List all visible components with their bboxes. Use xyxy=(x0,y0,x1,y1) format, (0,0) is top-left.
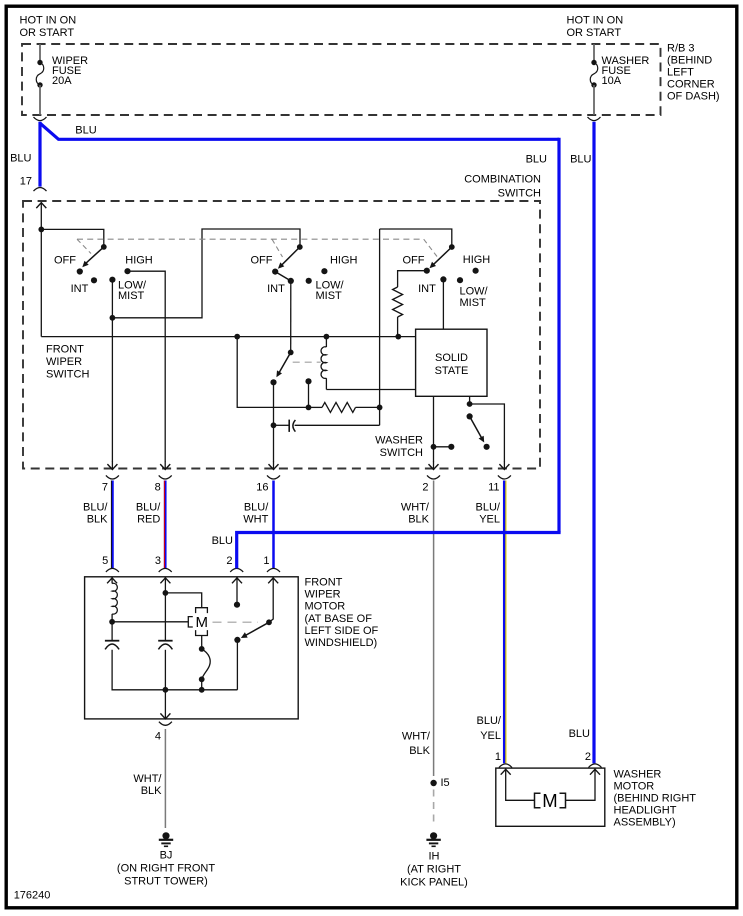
svg-text:2: 2 xyxy=(226,555,232,567)
svg-text:BLK: BLK xyxy=(409,745,430,757)
svg-text:LEFT SIDE OF: LEFT SIDE OF xyxy=(305,625,379,637)
svg-text:HOT IN ON: HOT IN ON xyxy=(567,15,624,27)
park switch arm xyxy=(241,622,269,638)
svg-text:OR START: OR START xyxy=(567,27,622,39)
label motor pin 5 xyxy=(102,555,108,567)
svg-text:BLU: BLU xyxy=(75,125,96,137)
wire WHT/BLK pin2 to I5 xyxy=(433,481,435,777)
wire B+ rail horizontal xyxy=(41,336,415,338)
wire BLU horizontal to motor2 xyxy=(237,531,559,568)
connector cup motor entry x165.2 xyxy=(159,568,172,572)
label WASHER MOTOR xyxy=(614,768,697,828)
svg-text:SWITCH: SWITCH xyxy=(498,187,541,199)
label HOT IN ON OR START (left) xyxy=(20,15,77,40)
svg-text:KICK PANEL): KICK PANEL) xyxy=(400,876,468,888)
svg-text:R/B 3: R/B 3 xyxy=(667,43,695,55)
label INT gang1 xyxy=(71,283,89,295)
washer fuse 10A xyxy=(590,44,598,115)
wire M bottom lead xyxy=(199,636,205,652)
svg-text:20A: 20A xyxy=(52,75,72,87)
node rail/relay-contact branch xyxy=(234,334,240,340)
wire pin3 down through capacitor xyxy=(164,593,166,641)
svg-text:MOTOR: MOTOR xyxy=(305,601,346,613)
label pin 2 xyxy=(422,482,428,494)
svg-text:BLU/: BLU/ xyxy=(477,715,502,727)
label motor pin 4 xyxy=(155,731,161,743)
svg-text:HIGH: HIGH xyxy=(330,254,358,266)
svg-text:5: 5 xyxy=(102,555,108,567)
washer motor box xyxy=(496,768,605,826)
motor park contact open xyxy=(234,602,240,608)
label LOW/MIST gang2 xyxy=(316,280,345,303)
wire gang3 feed top xyxy=(380,229,452,247)
label pin 11 xyxy=(488,482,499,494)
svg-text:BLK: BLK xyxy=(408,514,429,526)
svg-text:YEL: YEL xyxy=(480,730,501,742)
wire BLU/YEL pin11 to washer1 xyxy=(504,481,506,764)
combination switch dashed outline xyxy=(23,201,540,469)
label HIGH gang3 xyxy=(463,254,491,266)
resistor R gang3 INT xyxy=(393,287,403,337)
label WHT/BLK (lower) xyxy=(402,731,431,758)
svg-text:ASSEMBLY): ASSEMBLY) xyxy=(614,816,676,828)
node I5 xyxy=(430,777,449,789)
gang2 pivot xyxy=(297,244,303,250)
svg-text:M: M xyxy=(195,614,208,631)
connector cup motor entry x112.4 xyxy=(106,568,119,572)
label COMBINATION SWITCH xyxy=(464,174,541,200)
wire BLU branch diagonal+horizontal xyxy=(40,123,559,139)
svg-text:10A: 10A xyxy=(602,75,622,87)
svg-text:SWITCH: SWITCH xyxy=(46,369,89,381)
svg-text:(AT RIGHT: (AT RIGHT xyxy=(407,863,461,875)
park switch contact xyxy=(234,637,240,643)
wire pin5 down to capacitor xyxy=(111,622,113,641)
wire WHT/BLK motor pin4 to BJ xyxy=(164,729,166,828)
motor pin1 entry arrow xyxy=(268,578,278,623)
wire BLU wiper fuse vertical to pin 17 xyxy=(38,122,41,187)
resistor R (intermittent) xyxy=(309,402,380,412)
wire pin3 to M top xyxy=(165,593,201,608)
front wiper motor box xyxy=(85,577,299,719)
node brush curve bottom xyxy=(199,676,205,692)
label IH xyxy=(400,850,468,888)
mechanical linkage dashed xyxy=(77,239,437,257)
svg-text:WHT/: WHT/ xyxy=(402,731,431,743)
gang1 INT contact xyxy=(91,277,97,283)
gang3 OFF contact xyxy=(424,268,430,274)
gang2 OFF contact xyxy=(272,269,278,275)
node washer switch junction xyxy=(431,444,437,450)
comb switch exit arrow pin 11 xyxy=(498,461,511,479)
relay arm xyxy=(276,352,290,377)
wire rail branch down xyxy=(237,337,308,408)
wire gang2 OFF-INT link xyxy=(275,272,291,281)
gang2 HIGH contact xyxy=(321,268,327,274)
label LOW/MIST gang1 xyxy=(118,280,147,303)
motor brush curve xyxy=(202,649,211,679)
svg-text:BLU: BLU xyxy=(526,154,547,166)
svg-text:3: 3 xyxy=(155,555,161,567)
wire gang1 HIGH to pin 8 xyxy=(128,271,166,461)
capacitor C motor-1 xyxy=(105,641,119,650)
svg-text:I5: I5 xyxy=(441,777,450,789)
svg-text:BLU: BLU xyxy=(569,728,590,740)
label R/B 3 (BEHIND LEFT CORNER OF DASH) xyxy=(667,43,720,103)
wire gang3 feed vertical xyxy=(379,229,381,425)
wire dashed to IH ground xyxy=(433,790,435,825)
svg-text:BLK: BLK xyxy=(87,514,108,526)
label WASHER FUSE 10A xyxy=(602,55,650,87)
label FRONT WIPER MOTOR xyxy=(305,577,379,650)
svg-text:BLU: BLU xyxy=(570,154,591,166)
relay contact right xyxy=(305,378,311,407)
connector cup motor entry x236.7 xyxy=(230,568,243,572)
svg-text:STRUT TOWER): STRUT TOWER) xyxy=(124,876,208,888)
wire switch1 feed xyxy=(41,229,104,247)
gang3 pivot xyxy=(449,244,455,250)
motor M symbol xyxy=(188,608,208,636)
svg-text:MOTOR: MOTOR xyxy=(614,780,655,792)
svg-text:(AT BASE OF: (AT BASE OF xyxy=(305,613,373,625)
washer switch contact stub xyxy=(434,444,455,450)
node rail/INT-resistor xyxy=(395,334,401,340)
wire capacitor1 to rail xyxy=(112,650,237,690)
svg-text:STATE: STATE xyxy=(435,365,469,377)
gang3 arm xyxy=(430,247,452,268)
solid state unit U1 xyxy=(416,329,487,396)
label BLU/BLK xyxy=(83,502,108,526)
node motor pin5 junction xyxy=(109,614,115,625)
svg-text:LOW/: LOW/ xyxy=(460,286,489,298)
relay linkage dashed xyxy=(293,361,321,363)
node junction pin7/gang2 feed xyxy=(110,315,116,321)
front wiper switch gang1 pivot xyxy=(101,244,107,250)
svg-text:MIST: MIST xyxy=(118,290,145,302)
svg-text:YEL: YEL xyxy=(479,514,500,526)
ground BJ xyxy=(159,832,173,846)
svg-text:BLK: BLK xyxy=(141,785,162,797)
gang1 LOW/MIST contact xyxy=(109,277,115,283)
label BLU/RED xyxy=(136,502,161,526)
svg-text:HOT IN ON: HOT IN ON xyxy=(20,15,77,27)
svg-text:BLU/: BLU/ xyxy=(244,502,269,514)
label HOT IN ON OR START (right) xyxy=(567,15,624,40)
wire BLU/BLK pin7 to motor5 xyxy=(111,481,112,569)
label BLU (washer fuse lower) xyxy=(569,728,590,740)
label motor pin 1 xyxy=(263,555,269,567)
node motor pin3 junction xyxy=(163,590,169,596)
wire gang2 feed xyxy=(112,229,300,318)
node y407 stub junction xyxy=(306,405,312,411)
label BLU above horizontal xyxy=(75,125,96,137)
relay pivot xyxy=(288,350,294,356)
svg-text:WIPER: WIPER xyxy=(305,589,341,601)
connector below wiper fuse xyxy=(34,117,47,121)
label pin 8 xyxy=(155,482,161,494)
svg-text:WHT: WHT xyxy=(243,514,268,526)
svg-text:OFF: OFF xyxy=(251,254,273,266)
gang2 arm xyxy=(278,247,300,269)
washer motor M symbol xyxy=(535,790,566,811)
label pin 7 xyxy=(102,482,108,494)
label WIPER FUSE 20A xyxy=(52,55,88,87)
label motor pin 3 xyxy=(155,555,161,567)
gang3 HIGH contact xyxy=(473,268,479,274)
svg-text:WASHER: WASHER xyxy=(614,768,662,780)
connector below washer fuse xyxy=(588,117,601,121)
wire main feed entry + left vertical xyxy=(36,202,46,336)
label BLU near x559 xyxy=(526,154,547,166)
svg-text:BLU: BLU xyxy=(212,535,233,547)
wire gang2 INT to relay pivot xyxy=(290,281,292,353)
svg-text:WHT/: WHT/ xyxy=(133,773,162,785)
svg-text:16: 16 xyxy=(256,482,268,494)
label HIGH gang1 xyxy=(125,254,153,266)
washer motor pin1 arrow xyxy=(501,769,535,800)
svg-text:1: 1 xyxy=(495,751,501,763)
relay contact left xyxy=(270,379,276,385)
label OFF gang3 xyxy=(403,254,425,266)
wire relay contact to capacitor node xyxy=(273,382,275,425)
svg-text:INT: INT xyxy=(71,283,89,295)
svg-text:2: 2 xyxy=(422,482,428,494)
label motor pin 2 xyxy=(226,555,232,567)
motor pin5 entry arrow xyxy=(107,578,117,584)
wire park contact to rail xyxy=(236,640,238,690)
svg-text:RED: RED xyxy=(137,514,160,526)
label INT gang2 xyxy=(267,283,285,295)
motor dashed link M to park switch xyxy=(213,621,259,623)
svg-text:(ON RIGHT FRONT: (ON RIGHT FRONT xyxy=(117,863,215,875)
label BLU/YEL (lower) xyxy=(477,715,502,742)
park switch pivot xyxy=(266,619,272,625)
svg-text:WINDSHIELD): WINDSHIELD) xyxy=(305,637,378,649)
gang2 LOW/MIST contact xyxy=(306,278,312,284)
node rail/pin4 xyxy=(163,687,169,693)
comb switch exit arrow pin 16 xyxy=(267,461,280,479)
label BLU near motor pin2 xyxy=(212,535,233,547)
svg-text:OF DASH): OF DASH) xyxy=(667,91,720,103)
connector cup washer1 xyxy=(499,764,512,768)
svg-text:2: 2 xyxy=(585,751,591,763)
svg-text:7: 7 xyxy=(102,482,108,494)
svg-text:M: M xyxy=(542,790,557,811)
node resistor/gang3 feed xyxy=(377,405,383,411)
svg-text:SOLID: SOLID xyxy=(435,352,468,364)
node capacitor junction xyxy=(271,422,277,428)
label BLU near x594 xyxy=(570,154,591,166)
svg-text:BLU: BLU xyxy=(10,153,31,165)
svg-text:BLU/: BLU/ xyxy=(476,502,501,514)
wire BLU/WHT pin16 to motor1 xyxy=(272,481,275,569)
gang1 OFF contact xyxy=(77,268,83,274)
label washer pin 1 xyxy=(495,751,501,763)
svg-text:FRONT: FRONT xyxy=(46,344,84,356)
gang2 INT contact xyxy=(288,278,294,284)
relay coil xyxy=(321,337,326,390)
ground IH xyxy=(426,832,440,846)
svg-text:WASHER: WASHER xyxy=(375,435,423,447)
svg-text:4: 4 xyxy=(155,731,161,743)
capacitor C motor-2 xyxy=(158,641,172,650)
label OFF gang1 xyxy=(54,254,76,266)
svg-text:OFF: OFF xyxy=(403,254,425,266)
svg-text:MIST: MIST xyxy=(316,290,343,302)
label BJ xyxy=(117,850,215,888)
label BLU (left of wire) xyxy=(10,153,31,165)
gang3 LOW/MIST contact xyxy=(457,277,463,283)
svg-text:HIGH: HIGH xyxy=(125,254,153,266)
svg-text:MIST: MIST xyxy=(460,297,487,309)
comb switch exit arrow pin 8 xyxy=(159,461,172,479)
wire BLU/RED pin8 to motor3 xyxy=(163,481,167,569)
wire gang1 LOW to pin 7 xyxy=(111,280,113,462)
connector cup washer2 xyxy=(589,764,602,768)
wiper fuse 20A xyxy=(36,44,44,115)
svg-text:LEFT: LEFT xyxy=(667,67,694,79)
svg-text:HIGH: HIGH xyxy=(463,254,491,266)
gang1 HIGH contact xyxy=(124,268,130,274)
svg-text:BLU/: BLU/ xyxy=(83,502,108,514)
motor armature coil xyxy=(112,583,117,614)
label pin 16 xyxy=(256,482,268,494)
comb switch exit arrow pin 2 xyxy=(427,461,440,479)
washer motor pin2 arrow xyxy=(566,769,601,800)
svg-text:176240: 176240 xyxy=(14,889,51,901)
wire solid state to pin 11 xyxy=(470,396,505,461)
node rail/relay-coil xyxy=(324,334,330,340)
wire motor pin5 to M xyxy=(112,621,188,623)
svg-text:COMBINATION: COMBINATION xyxy=(464,174,541,186)
capacitor C (intermittent) xyxy=(274,420,380,432)
label BLU/WHT xyxy=(243,502,269,526)
gang3 INT contact xyxy=(440,276,446,282)
svg-text:FRONT: FRONT xyxy=(305,577,343,589)
label HIGH gang2 xyxy=(330,254,358,266)
washer switch contact xyxy=(484,444,490,450)
svg-text:SWITCH: SWITCH xyxy=(380,447,423,459)
motor pin4 exit arrow xyxy=(159,713,172,725)
svg-text:8: 8 xyxy=(155,482,161,494)
svg-text:INT: INT xyxy=(418,283,436,295)
svg-text:OFF: OFF xyxy=(54,254,76,266)
svg-text:WIPER: WIPER xyxy=(46,356,82,368)
label FRONT WIPER SWITCH xyxy=(46,344,89,381)
diagram id 176240 xyxy=(14,889,51,901)
label OFF gang2 xyxy=(251,254,273,266)
wire pin16 down xyxy=(273,425,275,461)
wire BLU washer fuse long vertical xyxy=(592,122,595,764)
svg-text:CORNER: CORNER xyxy=(667,79,715,91)
svg-text:1: 1 xyxy=(263,555,269,567)
svg-text:(BEHIND RIGHT: (BEHIND RIGHT xyxy=(614,792,697,804)
wire solid state to pin 2 xyxy=(433,396,435,461)
svg-text:WHT/: WHT/ xyxy=(401,502,430,514)
label pin 17 xyxy=(20,176,32,188)
svg-text:OR START: OR START xyxy=(20,27,75,39)
connector cup motor entry x273.5 xyxy=(267,568,280,572)
comb switch exit arrow pin 7 xyxy=(106,461,119,479)
label WASHER SWITCH xyxy=(375,435,423,460)
node junction main/switch1 feed xyxy=(38,227,44,233)
wire gang3 INT to solid state xyxy=(442,279,444,329)
wire relay coil to solid state xyxy=(326,389,415,391)
fuse box R/B 3 dashed outline xyxy=(22,44,661,115)
svg-text:17: 17 xyxy=(20,176,32,188)
svg-text:HEADLIGHT: HEADLIGHT xyxy=(614,804,677,816)
label washer pin 2 xyxy=(585,751,591,763)
svg-text:(BEHIND: (BEHIND xyxy=(667,55,712,67)
wire BLU long vertical right xyxy=(557,138,560,533)
svg-text:INT: INT xyxy=(267,283,285,295)
svg-text:IH: IH xyxy=(429,850,440,862)
label WHT/BLK xyxy=(401,502,430,526)
svg-text:BLU/: BLU/ xyxy=(136,502,161,514)
wire gang3 OFF to resistor xyxy=(398,271,427,287)
motor pin3 entry arrow xyxy=(160,578,170,593)
label INT gang3 xyxy=(418,283,436,295)
connector pin 17 xyxy=(34,188,47,192)
washer switch pivot xyxy=(467,401,473,419)
label WHT/BLK (pin4) xyxy=(133,773,162,797)
svg-text:BJ: BJ xyxy=(160,850,173,862)
svg-text:11: 11 xyxy=(488,482,499,494)
front wiper switch gang1 arm xyxy=(82,247,104,267)
label BLU/YEL xyxy=(476,502,501,526)
label LOW/MIST gang3 xyxy=(460,286,489,310)
wire capacitor2 to rail and pin4 xyxy=(164,650,166,719)
motor pin2 entry arrow xyxy=(232,578,242,605)
washer switch arm xyxy=(470,416,485,442)
